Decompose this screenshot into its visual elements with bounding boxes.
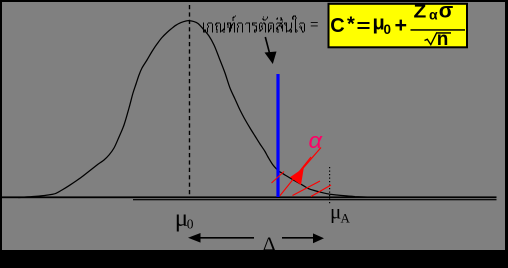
red arrow shaft from alpha	[303, 148, 322, 169]
svg-text:A: A	[341, 211, 351, 226]
svg-text:=: =	[357, 16, 371, 36]
svg-text:0: 0	[384, 22, 392, 37]
red hatch line 2 long	[280, 157, 311, 196]
svg-text:C: C	[330, 15, 344, 37]
svg-text:Δ: Δ	[263, 234, 276, 256]
svg-text:α: α	[309, 128, 324, 153]
dotted line at muA	[329, 167, 331, 205]
right arrowhead	[313, 233, 324, 243]
svg-text:n: n	[437, 29, 449, 50]
left arrowhead	[188, 233, 201, 243]
dashed mean line at mu0	[189, 5, 191, 197]
svg-text:+: +	[395, 13, 408, 37]
black arrow from label to blue line	[265, 37, 269, 53]
right arrow shaft	[282, 237, 314, 239]
fraction bar	[411, 29, 466, 31]
blue critical value line C*	[276, 74, 279, 197]
black arrowhead	[265, 52, 277, 65]
red hatch line 4	[311, 185, 331, 197]
svg-text:σ: σ	[439, 0, 454, 23]
x-axis line	[2, 196, 497, 198]
thai label: decision criterion	[203, 16, 305, 33]
red hatch line 1	[272, 172, 285, 184]
svg-text:Z: Z	[414, 1, 427, 22]
svg-text:α: α	[429, 6, 438, 22]
radical overbar	[436, 32, 451, 34]
formula denominator radical sign	[425, 33, 437, 45]
svg-text:0: 0	[187, 216, 194, 231]
left arrow shaft	[200, 237, 254, 239]
red hatch line 3	[293, 181, 321, 196]
second horizontal line	[133, 199, 497, 200]
yellow formula box	[329, 4, 468, 48]
normal curve	[18, 21, 370, 198]
svg-text:*: *	[347, 14, 355, 36]
svg-text:=: =	[310, 15, 319, 34]
red arrowhead	[290, 168, 304, 185]
